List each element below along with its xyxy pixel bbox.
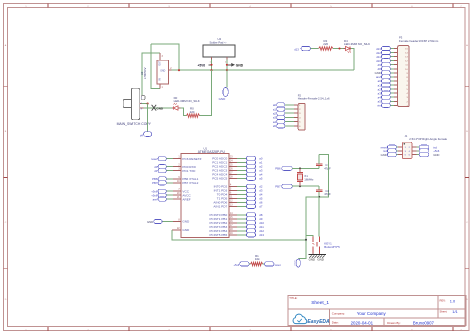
net flag aref [158,197,166,201]
pin 27 PC4 ADC4 [229,173,237,175]
junction [299,185,301,187]
P3 pin 10 [394,68,398,70]
connector P3 Female header1X15P 2.54mm [398,46,409,107]
P3 pin 3 [394,96,398,98]
svg-text:2020-04-01: 2020-04-01 [351,320,374,325]
wire pin 5 [237,189,247,191]
svg-text:Button6*6*5: Button6*6*5 [324,245,340,249]
pin 9 PB6 XTAL1 [173,178,181,180]
P2 pin 4 [294,116,298,118]
wire pin 20 [166,194,173,196]
power flag +5V6 [209,64,212,66]
svg-text:2.54 2*3P Right-Angle Female: 2.54 2*3P Right-Angle Female [409,137,447,141]
net flag a3 [381,91,390,95]
wire IN link [151,44,160,89]
wire P2 pin 1 [285,104,294,106]
net flag d5 [246,196,255,200]
svg-text:PD1 TXD: PD1 TXD [182,169,196,173]
net flag aref [381,75,390,79]
svg-text:d13: d13 [259,233,264,237]
wire pin22 to key ground [172,230,306,240]
pin 2 PD0 RXD [173,166,181,168]
svg-text:16MHz: 16MHz [304,177,314,181]
svg-text:d7: d7 [259,205,263,209]
svg-text:GND: GND [182,220,190,224]
net flag a2 [381,87,390,91]
net flag d11 [381,55,390,59]
wire pin 17 [237,226,247,228]
P3 pin 1 [394,104,398,106]
junction [226,64,228,66]
svg-text:reset: reset [151,157,157,161]
wire gnd loop [319,155,328,197]
J1 pin 6 [412,154,417,156]
pin 10 PB7 XTAL2 [173,182,181,184]
junction [178,69,180,71]
net flag a3 [277,115,285,119]
switch S1 MAIN_SWITCH [132,88,140,120]
pin 13 AIN1 PD7 [229,205,237,207]
junction [305,239,307,241]
svg-text:AREF: AREF [182,197,190,201]
svg-text:d1: d1 [154,169,158,173]
ground GND bar [312,252,314,254]
wire P2 pin 2 [285,108,294,110]
wire pin 18 [237,230,247,232]
wire pin 11 [237,197,247,199]
svg-text:L7805CV: L7805CV [143,67,147,79]
wire pin 12 [237,201,247,203]
svg-text:TITLE:: TITLE: [289,296,297,300]
svg-text:Your Company: Your Company [357,311,387,316]
wire pin 3 [166,170,173,172]
wire pin 24 [237,161,247,163]
net flag PB6 [158,177,166,181]
svg-text:GND: GND [309,258,315,262]
P3 pin 15 [394,48,398,50]
wire key ground left leg [298,197,319,258]
wire D4 to GND bus [351,49,354,71]
svg-text:GND: GND [160,71,165,73]
LED D0 LED-3MM NO_SILK [178,107,180,109]
wire pin 1 [166,158,173,160]
pin 3 PD1 TXD [173,170,181,172]
svg-text:PB7: PB7 [152,181,158,185]
svg-text:vin: vin [377,104,381,108]
net flag d13 [381,46,390,50]
svg-text:MAIN_SWITCH COPY: MAIN_SWITCH COPY [117,122,152,126]
wire key right [318,197,320,237]
pin 11 T1 PD5 [229,197,237,199]
net flag +5v6 [158,189,166,193]
pin 4 INT0 PD2 [229,185,237,187]
svg-text:Header-Female-2.54_1x6: Header-Female-2.54_1x6 [298,97,330,101]
ground flag GND [227,64,231,66]
svg-text:IN: IN [159,78,161,81]
net flag a5 [246,176,255,180]
svg-text:EasyEDA: EasyEDA [307,319,330,325]
pin 16 PCINT2 PB2 [229,222,237,224]
capacitor C2 47pF [316,189,322,191]
P2 pin 6 [294,125,298,127]
net flag d13 [246,233,255,237]
net flag txd [416,146,419,148]
svg-text:Bruno0907: Bruno0907 [413,320,435,325]
svg-text:reset: reset [275,263,281,267]
svg-text:REV:: REV: [440,299,446,303]
svg-text:GND: GND [156,107,164,111]
pin 17 PCINT3 PB3 [229,226,237,228]
junction [318,196,320,198]
net flag reset [387,145,396,149]
wire pin 8 [162,221,173,223]
wire +5V down [200,70,212,115]
pin 14 PCINT0 PB0 [229,214,237,216]
net flag a2 [246,164,255,168]
wire pin 15 [237,218,247,220]
title block [288,296,466,326]
svg-text:Date:: Date: [332,321,339,325]
pin 6 T0 PD4 [229,193,237,195]
svg-text:220: 220 [323,42,328,46]
net flag GND [381,71,390,75]
P3 pin 4 [394,92,398,94]
svg-text:Female header1X15P 2.54mm: Female header1X15P 2.54mm [399,39,439,43]
svg-text:OUT: OUT [159,60,161,65]
net flag d12 [246,229,255,233]
junction [299,167,301,169]
svg-text:47pF: 47pF [324,166,331,170]
svg-text:ATMEGA328P-PU: ATMEGA328P-PU [198,150,226,154]
net flag a1 [381,83,390,87]
net flag a0 [277,103,285,107]
net flag d4 [144,132,152,137]
pin 15 PCINT1 PB1 [229,218,237,220]
net flag a1 [277,107,285,111]
svg-text:PB6: PB6 [275,167,281,171]
svg-text:a5: a5 [273,124,277,128]
net flag a1 [246,160,255,164]
pin 1 PC6 RESET# [173,158,181,160]
pin 26 PC3 ADC3 [229,169,237,171]
pin 20 AVCC [173,194,181,196]
svg-text:GND: GND [381,153,387,157]
wire pad pin2 [226,60,228,71]
wire pin 21 [166,198,173,200]
pin 23 PC0 ADC0 [229,157,237,159]
wire pin 16 [237,222,247,224]
net flag a3 [246,168,255,172]
net flag +5v6 [416,150,419,152]
net flag d10 [246,221,255,225]
LED D4 LED-3MM NO_SILK [344,48,346,50]
svg-text:d4: d4 [140,133,143,137]
wire C2 bottom [318,191,320,197]
connector P2 Header-Female-2.54_1x6 [298,103,305,130]
svg-text:PB7 XTAL2: PB7 XTAL2 [182,181,198,185]
wire [263,263,265,265]
svg-text:Solder Pad <-: Solder Pad <- [210,40,227,44]
wire switch pin2 [142,103,148,105]
net flag d6 [246,200,255,204]
net flag reset [158,157,166,161]
svg-text:PC6 RESET#: PC6 RESET# [182,157,201,161]
J1 pin 5 [398,154,403,156]
svg-text:+5V6: +5V6 [198,64,206,68]
wire D0 to GND [139,107,172,109]
net flag vin [381,103,390,107]
wire pad pin1 [211,60,213,71]
wire to flag d4 [147,104,149,132]
net flag reset [265,262,275,266]
net flag GND [416,154,419,156]
pin 18 PCINT4 PB4 [229,230,237,232]
net flag d9 [246,217,255,221]
P3 pin 13 [394,56,398,58]
svg-text:1/1: 1/1 [452,309,457,314]
net flag d11 [246,225,255,229]
svg-text:Sheet_1: Sheet_1 [311,300,329,306]
svg-text:10k: 10k [255,257,260,261]
svg-text:GND: GND [147,220,153,224]
svg-text:GND: GND [219,97,227,101]
pin 24 PC1 ADC1 [229,161,237,163]
wire pin 4 [237,185,247,187]
wire C1 top [318,155,320,164]
svg-text:47pF: 47pF [324,192,331,196]
P3 pin 12 [394,60,398,62]
net flag GND [387,153,396,157]
wire pin 2 [166,166,173,168]
P2 pin 2 [294,108,298,110]
net flag a4 [381,95,390,99]
net flag a5 [381,99,390,103]
junction [226,69,228,71]
pin 19 PCINT5 PB5 [229,234,237,236]
pin 7 VCC [173,190,181,192]
svg-text:+5v6: +5v6 [233,263,239,267]
P3 pin 5 [394,88,398,90]
P3 pin 14 [394,52,398,54]
P2 pin 5 [294,121,298,123]
J1 pin 2 [412,146,417,148]
net flag d7 [246,204,255,208]
wire P2 pin 3 [285,112,294,114]
ground flag X-GND [152,105,157,111]
wire pin 27 [237,173,247,175]
junction [210,64,212,66]
svg-text:LED-3MM NO_SILK: LED-3MM NO_SILK [344,42,370,46]
wire pin 14 [237,214,247,216]
wire GND-loop top [151,44,179,70]
wire pin 9 [166,178,173,180]
svg-text:GND: GND [236,64,244,68]
wire pin 25 [237,165,247,167]
pin 21 AREF [173,198,181,200]
wire pin 28 [237,177,247,179]
wire pin 7 [166,190,173,192]
net flag a0 [246,156,255,160]
J1 pin 4 [412,150,417,152]
wire C1 branch [318,166,320,169]
P3 pin 2 [394,100,398,102]
net flag d0 [158,165,166,169]
pin 8 GND [173,221,181,223]
J1 pin 1 [398,146,403,148]
wire P2 pin 5 [285,121,294,123]
wire pin 10 [166,182,173,184]
regulator U2 L7805CV [159,53,161,60]
svg-text:a5: a5 [259,177,263,181]
svg-text:d13: d13 [294,48,299,52]
svg-text:LED-3MM NO_SILK: LED-3MM NO_SILK [174,99,200,103]
net flag reset (rotated) [296,259,300,267]
junction [210,69,212,71]
svg-text:Drawn By:: Drawn By: [387,321,401,325]
pin 12 AIN0 PD6 [229,201,237,203]
net flag a4 [277,120,285,124]
wire GND bus [172,69,355,71]
net flag a4 [246,172,255,176]
EasyEDA logo [293,314,307,324]
P3 pin 8 [394,76,398,78]
svg-text:1.0: 1.0 [450,298,456,303]
wire pin 19 [237,234,247,236]
svg-text:GND: GND [433,153,439,157]
net flag d10 [381,59,390,63]
crystal X1 16MHz [299,168,301,172]
wire PB7 row [292,185,319,187]
svg-text:PC5 ADC5: PC5 ADC5 [212,176,227,180]
push button KEY1 [312,236,314,242]
wire key jog [306,235,313,236]
svg-text:GND: GND [317,258,323,262]
P3 pin 11 [394,64,398,66]
P3 pin 7 [394,80,398,82]
net flag d1 [158,169,166,173]
pin 5 INT1 PD3 [229,189,237,191]
net flag a0 [381,79,390,83]
connector J1 2.54 2*3P Right-Angle Female [402,142,412,158]
J1 pin 3 [398,150,403,152]
net flag PB7 [158,181,166,185]
wire to GND port [226,70,228,87]
P3 pin 9 [394,72,398,74]
net flag d8 [381,67,390,71]
wire OUT to switch [142,53,160,99]
pin 28 PC5 ADC5 [229,177,237,179]
net flag a2 [277,111,285,115]
svg-text:PB7: PB7 [275,184,281,188]
wire d13 to R2 [311,48,319,50]
net flag d9 [381,63,390,67]
net flag d8 [246,213,255,217]
svg-text:reset: reset [293,260,296,265]
wire R2 to D4 [333,48,344,50]
P3 pin 6 [394,84,398,86]
wire C2 branch [318,186,320,190]
net flag d3 [246,188,255,192]
svg-text:PCINT5 PB5: PCINT5 PB5 [209,233,227,237]
wire PB6 row [292,167,319,169]
net flag +5v6 [158,193,166,197]
wire pin 23 [237,157,247,159]
net flag d2 [246,184,255,188]
junction [338,47,340,49]
net port GND [223,87,228,96]
net flag GND [154,219,162,223]
wire pin 26 [237,169,247,171]
wire pin 13 [237,205,247,207]
wire P2 pin 4 [285,116,294,118]
svg-text:GND: GND [182,228,190,232]
wire pin 6 [237,193,247,195]
svg-text:Company:: Company: [332,311,345,315]
svg-text:aref: aref [153,197,158,201]
junction [147,103,149,105]
svg-text:AIN1 PD7: AIN1 PD7 [213,205,227,209]
solder pad U4 [203,45,235,57]
resistor R0 220 [187,114,200,118]
resistor R1 10k [251,262,263,266]
P2 pin 1 [294,104,298,106]
wire R0 to D0 [180,108,186,116]
svg-text:220: 220 [190,110,195,114]
P2 pin 3 [294,112,298,114]
net flag a5 [277,124,285,128]
net flag rxd [387,149,396,153]
wire [249,263,250,265]
resistor R2 220 [319,47,333,51]
IC U1 ATMEGA328P-PU body [181,154,229,238]
svg-text:Sheet:: Sheet: [440,309,448,313]
pin 22 GND [172,229,181,231]
pin 25 PC2 ADC2 [229,165,237,167]
net flag d4 [246,192,255,196]
net flag d12 [381,50,390,54]
wire P2 pin 6 [285,125,294,127]
capacitor C1 47pF [316,163,322,165]
